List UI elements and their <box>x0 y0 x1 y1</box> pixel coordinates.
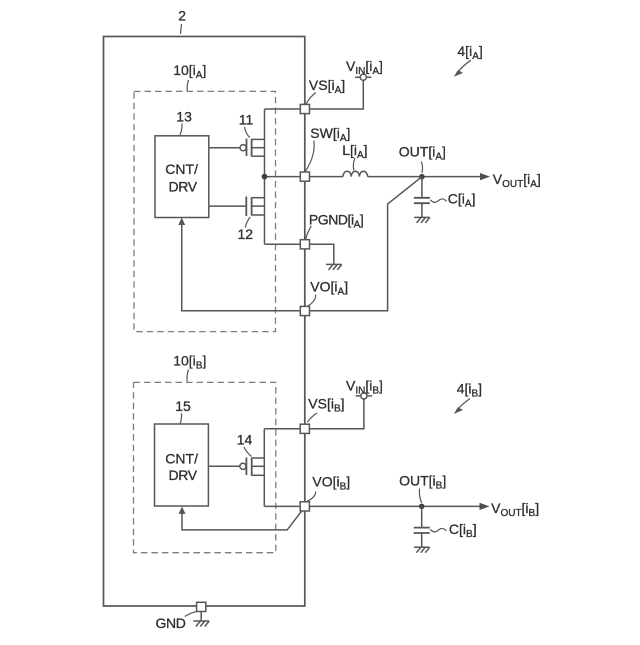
terminal square PGND[iA] <box>300 240 309 249</box>
wire OUT[iB] to capacitor <box>421 506 423 527</box>
svg-text:VIN[iB]: VIN[iB] <box>346 377 383 396</box>
block U-B CNT/DRV <box>155 424 209 506</box>
wire GND to ground <box>200 612 202 621</box>
terminal VIN[iA] circle <box>360 74 366 80</box>
wire OUT[iA] to capacitor <box>421 177 423 198</box>
wire rail B <box>263 429 265 507</box>
svg-text:VO[iB]: VO[iB] <box>312 474 350 493</box>
block U-A CNT/DRV <box>155 136 209 218</box>
terminal VIN[iA] crossbar <box>355 76 371 78</box>
wire feedback A from OUT <box>182 177 422 311</box>
transistor Q11 channel bar <box>251 139 253 157</box>
terminal square GND <box>197 602 206 611</box>
arrow for label 4[iA] <box>457 60 471 73</box>
svg-text:VS[iB]: VS[iB] <box>308 396 344 415</box>
capacitor C[iA] top plate <box>414 197 430 199</box>
wire VO[iB] rail to terminal <box>264 505 300 507</box>
svg-text:VIN[iA]: VIN[iA] <box>346 58 383 77</box>
capacitor C[iB] bottom plate <box>414 532 430 534</box>
dashed converter block 10[iB] <box>134 382 276 552</box>
transistor Q14 drain stub <box>252 457 265 459</box>
pointer for label VO[iB] <box>307 492 316 502</box>
transistor Q14 source stub <box>252 474 265 476</box>
pointer for label VO[iA] <box>307 295 316 307</box>
svg-text:2: 2 <box>178 7 186 23</box>
arrowhead VOUT[iB] <box>480 503 490 510</box>
svg-text:4[iB]: 4[iB] <box>457 380 482 399</box>
capacitor C[iB] top plate <box>414 527 430 529</box>
pointer for label GND <box>185 612 196 617</box>
wire inductor to VOUT arrow <box>368 176 482 178</box>
pointer for label 10[iB] <box>187 370 188 382</box>
pointer for label OUT[iA] <box>421 162 422 173</box>
svg-text:4[iA]: 4[iA] <box>457 43 482 62</box>
svg-text:14: 14 <box>237 432 253 448</box>
terminal square VS[iB] <box>300 424 309 433</box>
capacitor C[iA] bottom plate <box>414 202 430 204</box>
svg-text:10[iB]: 10[iB] <box>173 353 206 372</box>
terminal square VS[iA] <box>300 104 309 113</box>
transistor Q12 source stub <box>252 214 265 216</box>
transistor Q11 gate bar <box>246 139 248 156</box>
pointer for label VS[iB] <box>307 413 317 422</box>
pointer for label 2 <box>181 24 182 34</box>
pointer for label 14 <box>244 447 252 457</box>
ground below C[iA] <box>414 217 430 223</box>
arrowhead feedback B <box>179 506 186 514</box>
pointer for label L[iA] <box>353 158 355 171</box>
svg-text:SW[iA]: SW[iA] <box>310 125 350 144</box>
ground below PGND[iA] <box>326 264 342 270</box>
transistor Q11 gate bubble <box>240 145 246 151</box>
wire VS[iB] to rail <box>264 428 300 430</box>
arrow for label 4[iB] <box>456 399 470 411</box>
pointer for label VS[iA] <box>306 93 316 105</box>
svg-text:OUT[iB]: OUT[iB] <box>399 473 446 492</box>
wire VIN[iB] drop <box>309 399 364 429</box>
transistor Q14 gate wire <box>208 465 239 467</box>
svg-text:VOUT[iA]: VOUT[iA] <box>493 171 541 190</box>
svg-text:GND: GND <box>156 615 186 631</box>
wire SW[iA] node to terminal <box>265 176 301 178</box>
svg-text:CNT/: CNT/ <box>165 450 198 466</box>
terminal square VO[iB] <box>300 502 309 511</box>
wire VO[iB] to VOUT arrow <box>309 505 481 507</box>
pointer squiggle for label C[iB] <box>430 528 446 531</box>
terminal VIN[iB] crossbar <box>356 395 372 397</box>
pointer for label 15 <box>180 413 181 423</box>
dashed converter block 10[iA] <box>134 91 276 331</box>
transistor Q12 drain stub <box>252 197 265 199</box>
pointer for label 12 <box>245 217 250 228</box>
svg-text:DRV: DRV <box>169 178 198 194</box>
transistor Q11 body stub <box>252 147 265 149</box>
ground below C[iB] <box>414 547 430 553</box>
svg-text:12: 12 <box>238 226 254 242</box>
transistor Q12 gate wire <box>209 205 247 207</box>
svg-text:11: 11 <box>239 112 254 128</box>
wire rail A <box>264 109 266 244</box>
pointer for label SW[iA] <box>305 141 314 172</box>
chip outline box 2 <box>104 37 305 607</box>
arrowhead feedback A <box>178 218 185 226</box>
svg-text:C[iA]: C[iA] <box>448 191 476 210</box>
svg-text:13: 13 <box>176 108 192 124</box>
wire capacitor to ground <box>421 203 423 217</box>
terminal square VO[iA] <box>300 306 309 315</box>
pointer for label 13 <box>180 124 182 136</box>
transistor Q11 drain stub <box>252 138 265 140</box>
inductor L[iA] <box>343 171 368 176</box>
ground below GND <box>193 621 209 627</box>
transistor Q11 gate wire <box>209 147 240 149</box>
transistor Q12 body stub <box>252 205 265 207</box>
svg-text:C[iB]: C[iB] <box>449 521 477 540</box>
transistor Q11 source stub <box>252 155 265 157</box>
pointer for label 10[iA] <box>187 80 188 91</box>
svg-text:VOUT[iB]: VOUT[iB] <box>491 500 539 519</box>
pointer for label OUT[iB] <box>419 489 421 504</box>
svg-text:CNT/: CNT/ <box>165 161 198 177</box>
pointer for label 11 <box>245 127 250 138</box>
node OUT[iB] dot <box>419 504 425 510</box>
node SW junction dot <box>262 174 268 180</box>
svg-text:OUT[iA]: OUT[iA] <box>399 143 446 162</box>
transistor Q12 channel bar <box>251 197 253 215</box>
svg-text:15: 15 <box>175 398 191 414</box>
node OUT[iA] dot <box>419 174 425 180</box>
pointer squiggle for label C[iA] <box>430 199 446 202</box>
wire VIN[iA] drop <box>310 80 364 109</box>
wire PGND[iA] to rail <box>265 243 301 245</box>
svg-text:PGND[iA]: PGND[iA] <box>309 211 363 230</box>
terminal square SW[iA] <box>300 172 309 181</box>
transistor Q14 channel bar <box>251 458 253 476</box>
wire capacitor B to ground <box>421 533 423 547</box>
wire VS[iA] to rail <box>265 108 301 110</box>
transistor Q14 gate bar <box>245 458 247 476</box>
svg-text:DRV: DRV <box>169 467 198 483</box>
arrowhead VOUT[iA] <box>480 173 490 180</box>
transistor Q14 gate bubble <box>240 463 246 469</box>
terminal VIN[iB] circle <box>361 393 367 399</box>
transistor Q12 gate bar <box>245 197 247 216</box>
transistor Q14 body stub <box>252 465 265 467</box>
wire PGND to ground <box>310 244 334 264</box>
wire feedback B from VO terminal <box>182 511 302 530</box>
pointer for label PGND[iA] <box>306 226 312 239</box>
svg-text:10[iA]: 10[iA] <box>173 62 206 81</box>
wire SW to inductor <box>310 176 344 178</box>
